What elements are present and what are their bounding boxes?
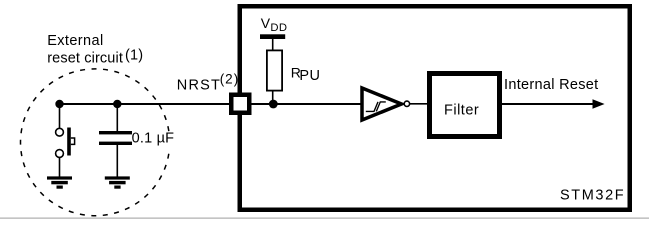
wire: node B to capacitor top plate: [116, 104, 118, 131]
svg-text:DD: DD: [270, 22, 287, 34]
svg-text:Internal Reset: Internal Reset: [504, 77, 598, 93]
push button actuator bracket: [71, 138, 75, 144]
push button B1 contacts: [56, 128, 64, 136]
wire: pad to schmitt trigger input: [252, 103, 362, 105]
svg-text:External: External: [47, 33, 103, 49]
push button actuator bar: [67, 128, 71, 156]
wire: node A to button top contact: [59, 104, 61, 128]
wire: resistor to node C: [272, 91, 274, 106]
node A junction dot (button): [55, 100, 63, 108]
capacitor value label 0.1 uF: [133, 132, 178, 148]
ground (capacitor): [105, 176, 130, 188]
svg-text:V: V: [261, 15, 271, 31]
wire: node to NRST pad: [60, 103, 234, 105]
wire: VDD bar to resistor: [272, 39, 274, 50]
node C junction dot (RPU to NRST line): [269, 100, 278, 109]
capacitor C1 0.1uF: [99, 131, 132, 145]
node B junction dot (capacitor): [113, 100, 121, 108]
wire: filter output arrow line: [502, 103, 595, 105]
schmitt hysteresis symbol: [366, 102, 378, 112]
wire: capacitor bottom plate to ground: [116, 145, 118, 177]
STM32F box: [240, 6, 630, 210]
wire: bubble to filter box: [410, 103, 429, 105]
bottom grey separator line: [0, 217, 649, 219]
arrowhead: [593, 99, 605, 108]
inverter output bubble: [404, 101, 409, 106]
ground (button): [47, 176, 72, 188]
NRST pad (square pin): [231, 95, 249, 113]
svg-text:0.1 µF: 0.1 µF: [132, 130, 175, 146]
svg-text:NRST: NRST: [177, 77, 221, 93]
svg-text:PU: PU: [299, 68, 320, 84]
svg-text:(2): (2): [220, 71, 240, 86]
resistor RPU: [267, 50, 282, 90]
svg-text:reset circuit: reset circuit: [47, 51, 123, 67]
schmitt trigger inverter U1 triangle: [362, 88, 402, 120]
svg-text:Filter: Filter: [444, 103, 479, 119]
svg-text:(1): (1): [125, 48, 143, 64]
wire: button bottom contact to ground: [59, 157, 61, 176]
VDD rail bar: [260, 34, 285, 39]
Filter box: [430, 74, 500, 137]
external reset circuit dashed ellipse: [21, 69, 170, 216]
svg-text:STM32F: STM32F: [560, 188, 625, 204]
